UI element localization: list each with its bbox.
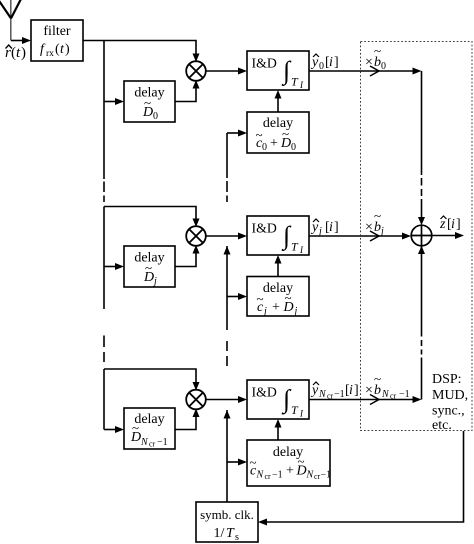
- svg-text:T: T: [226, 526, 235, 541]
- svg-text:×: ×: [365, 55, 373, 70]
- svg-text:N: N: [256, 470, 265, 481]
- svg-text:~: ~: [250, 455, 257, 470]
- svg-text:symb. clk.: symb. clk.: [200, 507, 254, 522]
- svg-text:1/: 1/: [214, 526, 225, 541]
- svg-text:): ): [21, 45, 26, 61]
- svg-text:I&D: I&D: [252, 221, 277, 236]
- svg-text:y: y: [310, 55, 319, 70]
- summer S1: [411, 225, 432, 246]
- wire delay C0 to I&D U1: [275, 90, 282, 112]
- svg-text:filter: filter: [43, 24, 71, 39]
- svg-text:cr: cr: [327, 392, 334, 401]
- svg-text:): ): [65, 42, 70, 57]
- svg-text:sync.,: sync.,: [432, 404, 465, 419]
- svg-text:rx: rx: [46, 49, 54, 59]
- I&D U2: [247, 216, 309, 255]
- svg-text:s: s: [235, 532, 239, 543]
- delay D0: [124, 81, 175, 122]
- svg-text:I&D: I&D: [252, 56, 277, 71]
- filter F1: [31, 20, 83, 61]
- svg-text:i: i: [329, 220, 333, 235]
- svg-text:z: z: [439, 217, 446, 232]
- svg-text:−1: −1: [399, 389, 410, 400]
- wire multiplier M2 to I&D U2: [206, 233, 247, 240]
- svg-text:−1: −1: [272, 470, 283, 481]
- svg-text:0: 0: [291, 142, 296, 153]
- multiplier M2: [186, 226, 206, 246]
- svg-text:]: ]: [334, 220, 339, 235]
- wire b3 branch up to summer: [421, 246, 423, 400]
- node r(t) label: [5, 45, 26, 61]
- svg-text:]: ]: [456, 217, 461, 232]
- wire b0 branch down to summer: [421, 71, 423, 218]
- wire arrow into summer top: [418, 217, 425, 225]
- wire main branch vertical: [103, 41, 105, 430]
- wire branch to delay DN: [104, 426, 124, 433]
- svg-text:×: ×: [365, 220, 373, 235]
- svg-text:~: ~: [374, 371, 381, 386]
- svg-text:−1: −1: [157, 437, 168, 448]
- svg-text:etc.: etc.: [432, 418, 452, 433]
- svg-text:0: 0: [319, 61, 324, 72]
- svg-text:~: ~: [145, 260, 152, 275]
- svg-text:cr: cr: [149, 440, 156, 449]
- node xbj label: [365, 208, 384, 237]
- node z[i] label: [439, 216, 461, 232]
- svg-text:~: ~: [257, 291, 264, 306]
- DSP label: [432, 372, 468, 433]
- wire delay CN to I&D U3: [275, 419, 282, 440]
- clock line vertical: [226, 133, 228, 502]
- delay DN: [124, 408, 175, 449]
- svg-text:y: y: [310, 220, 319, 235]
- svg-text:0: 0: [262, 142, 267, 153]
- delay Cj (code delay): [247, 277, 309, 318]
- svg-text:~: ~: [256, 127, 263, 142]
- svg-text:~: ~: [285, 290, 292, 305]
- wire branch row3 horizontal to multiplier M3: [104, 369, 200, 391]
- wire delay D0 to multiplier M1: [175, 80, 200, 102]
- wire multiplier M3 to I&D U3: [206, 396, 247, 403]
- wire clock to delay CN: [227, 459, 247, 466]
- wire clock arrow up row2: [224, 246, 231, 255]
- node xbN label: [365, 371, 410, 401]
- svg-text:~: ~: [282, 126, 289, 141]
- svg-text:×: ×: [365, 383, 373, 398]
- wire multiplier M1 to I&D U1: [206, 68, 247, 75]
- wire summer output: [432, 232, 464, 239]
- svg-text:~: ~: [374, 208, 381, 223]
- svg-text:MUD,: MUD,: [432, 388, 468, 403]
- svg-text:+: +: [270, 136, 278, 151]
- antenna: [0, 0, 21, 41]
- svg-text:N: N: [318, 389, 327, 400]
- wire I&D U2 output to summer: [309, 231, 411, 241]
- wire DSP feedback to clock: [258, 431, 464, 526]
- svg-text:DSP:: DSP:: [432, 372, 462, 387]
- svg-text:0: 0: [153, 111, 158, 122]
- svg-text:~: ~: [144, 95, 151, 110]
- wire arrow into summer bottom: [418, 246, 425, 254]
- svg-text:cr: cr: [265, 472, 272, 481]
- I&D U1: [247, 51, 309, 90]
- svg-text:N: N: [381, 389, 390, 400]
- wire I&D U1 output: [309, 66, 422, 76]
- multiplier M3: [186, 390, 206, 410]
- svg-text:+: +: [272, 300, 280, 315]
- svg-text:~: ~: [132, 420, 139, 435]
- delay CN (code delay): [247, 440, 331, 486]
- multiplier M1: [186, 61, 206, 81]
- wire clock arrow up row3: [224, 410, 231, 419]
- wire branch row2 horizontal to multiplier M2: [104, 207, 200, 228]
- node xb0 label: [365, 43, 386, 72]
- wire branch to delay D0: [104, 98, 124, 105]
- node yN[i] label: [310, 382, 359, 401]
- svg-text:i: i: [349, 383, 353, 398]
- node y0[i] label: [310, 54, 339, 72]
- svg-text:]: ]: [354, 383, 359, 398]
- wire clock to delay Cj: [227, 293, 247, 300]
- svg-text:−1: −1: [334, 389, 345, 400]
- svg-text:cr: cr: [390, 392, 397, 401]
- I&D U3: [247, 380, 309, 419]
- DSP dashed box: [361, 42, 473, 431]
- svg-text:~: ~: [298, 454, 305, 469]
- wire antenna to filter: [11, 37, 31, 44]
- delay Dj: [124, 246, 175, 287]
- wire delay Dj to multiplier M2: [175, 245, 200, 267]
- wire I&D U3 output: [309, 395, 422, 405]
- symbol clock OSC1: [196, 502, 258, 543]
- wire filter output to multiplier M1: [83, 41, 200, 63]
- svg-text:i: i: [329, 55, 333, 70]
- wire delay DN to multiplier M3: [175, 409, 200, 430]
- svg-text:I&D: I&D: [252, 385, 277, 400]
- svg-text:]: ]: [334, 55, 339, 70]
- svg-text:0: 0: [381, 61, 386, 72]
- svg-text:−1: −1: [321, 470, 332, 481]
- wire delay Cj to I&D U2: [275, 255, 282, 277]
- delay C0 (code delay): [247, 112, 309, 153]
- wire clock to delay C0: [227, 130, 247, 137]
- node yj[i] label: [310, 219, 339, 237]
- svg-text:~: ~: [374, 43, 381, 58]
- svg-text:+: +: [286, 464, 294, 479]
- svg-text:y: y: [310, 383, 319, 398]
- svg-text:i: i: [451, 217, 455, 232]
- wire branch to delay Dj: [104, 263, 124, 270]
- svg-text:N: N: [140, 437, 149, 448]
